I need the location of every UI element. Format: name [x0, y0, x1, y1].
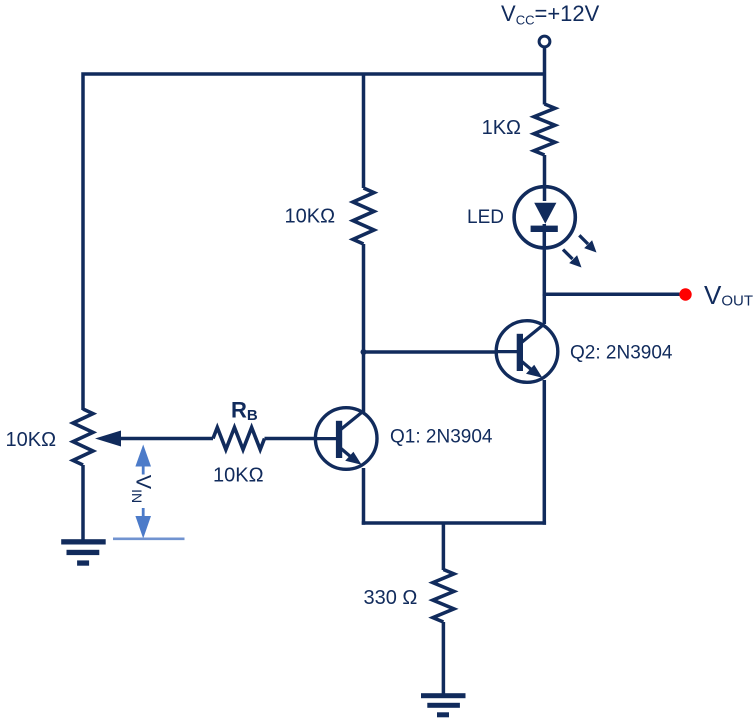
- wire LED to Q2 collector: [543, 294, 547, 324]
- wire Q1 emitter down to bottom rail: [362, 468, 366, 525]
- svg-text:1KΩ: 1KΩ: [482, 117, 521, 139]
- wire 10K resistor down to Q1 collector junction: [362, 244, 366, 412]
- svg-text:VCC=+12V: VCC=+12V: [501, 1, 600, 27]
- svg-text:Q1: 2N3904: Q1: 2N3904: [390, 427, 493, 448]
- wire Q2 emitter down to bottom rail: [543, 380, 547, 525]
- VIN reference line (light blue): [113, 537, 185, 540]
- wire 330 resistor to ground: [442, 622, 446, 694]
- transistor Q1 2N3904: [315, 408, 377, 470]
- svg-text:VIN: VIN: [129, 475, 156, 503]
- wire VOUT (horizontal): [545, 293, 680, 297]
- terminal VCC (open circle): [539, 36, 550, 47]
- wire VCC terminal down to top rail: [543, 47, 547, 105]
- wire 1K resistor to LED: [543, 155, 547, 201]
- svg-text:RB: RB: [231, 398, 258, 425]
- potentiometer wiper arrow: [95, 431, 121, 447]
- svg-text:10KΩ: 10KΩ: [285, 206, 336, 228]
- wire bottom rail to 330 resistor: [442, 523, 446, 570]
- VIN arrow (bottom, pointing down): [135, 508, 151, 539]
- wire middle vertical from top rail to 10K resistor: [362, 74, 366, 188]
- resistor 1KΩ (zigzag): [534, 104, 555, 155]
- LED D1: [514, 187, 575, 296]
- svg-text:Q2: 2N3904: Q2: 2N3904: [570, 343, 673, 364]
- svg-text:10KΩ: 10KΩ: [213, 465, 264, 487]
- wire wiper to RB resistor: [120, 437, 213, 441]
- resistor 10KΩ (middle, zigzag): [353, 188, 374, 244]
- VIN arrow (top, pointing up): [135, 445, 151, 475]
- svg-text:LED: LED: [467, 207, 504, 228]
- wire RB resistor to Q1 base: [265, 437, 318, 441]
- resistor RB (zigzag horizontal): [213, 428, 265, 450]
- potentiometer 10KΩ (zigzag): [73, 409, 93, 465]
- wire top rail (horizontal) and left vertical drop: [83, 74, 545, 410]
- svg-text:330 Ω: 330 Ω: [364, 587, 418, 609]
- label VIN (rotated): [129, 475, 156, 503]
- wire bottom rail (horizontal): [362, 521, 546, 525]
- wire base rail Q1 collector to Q2 base: [364, 350, 497, 354]
- ground (left): [61, 539, 105, 566]
- node VOUT (red dot): [679, 288, 691, 300]
- transistor Q2 2N3904: [496, 321, 558, 383]
- LED light arrow 2: [563, 250, 582, 268]
- LED light arrow 1: [579, 235, 596, 252]
- junction node dot: [361, 349, 367, 355]
- wire pot to ground: [81, 465, 85, 542]
- resistor 330Ω (zigzag): [433, 570, 454, 623]
- ground (bottom): [421, 693, 466, 717]
- svg-text:10KΩ: 10KΩ: [6, 429, 57, 451]
- svg-text:VOUT: VOUT: [704, 280, 753, 310]
